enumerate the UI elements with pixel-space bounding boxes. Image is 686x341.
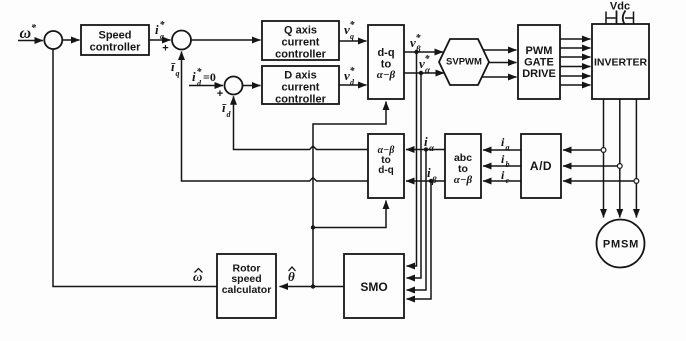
svg-text:A/D: A/D bbox=[530, 159, 552, 173]
svg-text:d-q: d-q bbox=[377, 47, 394, 59]
svg-text:ω: ω bbox=[20, 25, 32, 42]
svg-text:controller: controller bbox=[275, 94, 326, 106]
svg-text:c: c bbox=[506, 176, 510, 185]
svg-text:a: a bbox=[506, 143, 510, 152]
svg-text:Speed: Speed bbox=[98, 30, 131, 42]
svg-text:Vdc: Vdc bbox=[610, 1, 630, 13]
svg-text:β: β bbox=[415, 44, 421, 54]
svg-text:+: + bbox=[162, 43, 168, 55]
svg-text:Q axis: Q axis bbox=[284, 25, 317, 37]
svg-text:calculator: calculator bbox=[222, 284, 272, 296]
svg-text:i: i bbox=[192, 69, 196, 84]
svg-text:current: current bbox=[282, 37, 320, 49]
svg-text:α−β: α−β bbox=[454, 174, 473, 186]
svg-text:β: β bbox=[431, 175, 437, 185]
svg-text:d-q: d-q bbox=[378, 165, 394, 176]
svg-text:GATE: GATE bbox=[524, 57, 554, 69]
svg-text:current: current bbox=[282, 82, 320, 94]
svg-text:i: i bbox=[424, 134, 428, 149]
svg-text:q: q bbox=[350, 32, 354, 41]
svg-text:controller: controller bbox=[275, 49, 326, 61]
svg-text:DRIVE: DRIVE bbox=[522, 68, 556, 80]
svg-text:INVERTER: INVERTER bbox=[594, 57, 648, 69]
svg-text:PMSM: PMSM bbox=[603, 239, 639, 251]
svg-text:q: q bbox=[160, 32, 164, 41]
svg-text:SVPWM: SVPWM bbox=[446, 57, 482, 68]
svg-text:q: q bbox=[176, 69, 180, 78]
svg-text:i: i bbox=[427, 165, 431, 180]
svg-text:SMO: SMO bbox=[360, 280, 387, 294]
svg-text:=0: =0 bbox=[203, 70, 216, 84]
svg-text:i: i bbox=[155, 22, 159, 37]
svg-text:PWM: PWM bbox=[526, 45, 553, 57]
svg-text:controller: controller bbox=[90, 42, 141, 54]
svg-text:b: b bbox=[506, 160, 510, 169]
svg-text:α−β: α−β bbox=[378, 145, 396, 156]
svg-text:+: + bbox=[217, 88, 223, 100]
svg-text:D axis: D axis bbox=[284, 70, 316, 82]
svg-text:α−β: α−β bbox=[377, 69, 396, 81]
